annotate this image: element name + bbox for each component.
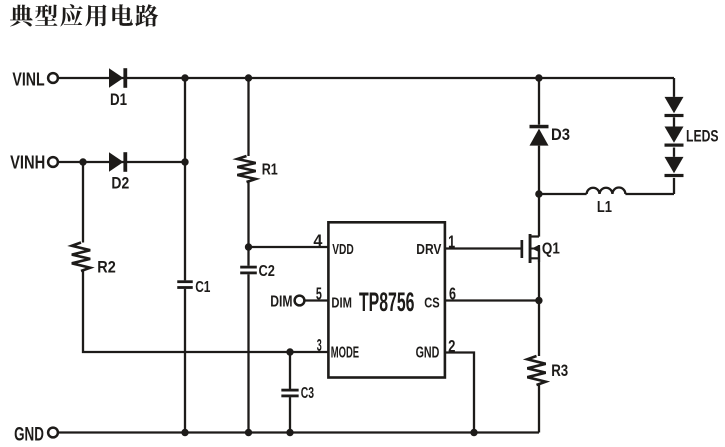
capacitor C3	[281, 389, 298, 398]
svg-text:TP8756: TP8756	[359, 287, 415, 317]
svg-text:C1: C1	[195, 279, 210, 296]
svg-text:D1: D1	[110, 91, 127, 109]
wire D3 cathode up	[538, 78, 540, 125]
svg-text:1: 1	[448, 232, 455, 252]
wire DIM pin	[305, 299, 328, 301]
svg-text:VINL: VINL	[12, 70, 44, 90]
junction CS node	[535, 297, 542, 304]
transistor Q1	[521, 234, 540, 263]
svg-text:Q1: Q1	[542, 241, 560, 258]
op-amp U1 TP8756 IC body	[328, 222, 445, 377]
svg-text:4: 4	[313, 230, 322, 250]
terminal DIM	[295, 296, 305, 306]
svg-text:MODE: MODE	[331, 345, 359, 362]
svg-text:R2: R2	[97, 259, 116, 277]
wire LED string top	[673, 78, 675, 97]
junction VDD/C2	[245, 243, 252, 250]
junction node A mid	[181, 158, 188, 165]
svg-text:D3: D3	[551, 126, 570, 144]
svg-text:5: 5	[316, 284, 322, 304]
svg-text:DIM: DIM	[331, 296, 352, 312]
junction node B top	[245, 74, 252, 81]
svg-text:CS: CS	[424, 296, 440, 312]
svg-text:LEDS: LEDS	[686, 127, 719, 146]
wire C1 to ground rail	[184, 289, 186, 433]
wire CS pin	[445, 299, 539, 301]
wire node B down to R1	[247, 78, 249, 156]
wire VINH rail	[59, 161, 186, 163]
svg-text:C3: C3	[301, 385, 315, 402]
svg-text:2: 2	[448, 336, 455, 356]
svg-text:R1: R1	[262, 162, 278, 179]
junction node A top	[181, 74, 188, 81]
terminal VINL	[48, 73, 58, 83]
svg-text:C2: C2	[259, 263, 275, 280]
wire VINL top rail	[59, 77, 675, 79]
junction ground GND pin	[470, 429, 477, 436]
svg-text:VDD: VDD	[332, 242, 354, 258]
svg-text:6: 6	[449, 284, 456, 304]
capacitor C2	[240, 266, 257, 275]
LED 1	[665, 97, 684, 117]
junction MODE/C3	[286, 348, 293, 355]
svg-text:GND: GND	[416, 345, 440, 362]
wire Q1 source down	[538, 249, 540, 301]
LED 2	[665, 127, 684, 147]
svg-text:DIM: DIM	[270, 293, 292, 310]
terminal VINH	[48, 157, 58, 167]
svg-text:R3: R3	[551, 362, 568, 380]
svg-text:DRV: DRV	[416, 242, 441, 258]
wire MODE node to C3	[289, 352, 291, 389]
svg-text:L1: L1	[597, 199, 612, 216]
wire LED string links	[673, 117, 675, 194]
junction SW node	[535, 190, 542, 197]
diode D3	[530, 125, 549, 146]
wire ground rail	[59, 431, 539, 433]
wire C2 to ground rail	[247, 274, 249, 432]
wire CS node to R3	[538, 301, 540, 357]
terminal GND	[48, 428, 58, 438]
capacitor C1	[177, 280, 193, 289]
svg-text:3: 3	[317, 335, 322, 355]
svg-text:VINH: VINH	[10, 152, 45, 173]
junction D3 top	[535, 74, 542, 81]
wire L1 to SW node	[539, 193, 587, 195]
diode D2	[109, 152, 127, 172]
title 典型应用电路	[10, 4, 158, 26]
wire C3 to ground rail	[289, 397, 291, 432]
resistor R3	[527, 356, 545, 385]
LED 3	[665, 157, 684, 177]
svg-text:D2: D2	[111, 175, 129, 193]
junction ground C1	[181, 429, 188, 436]
wire D3 anode to Q1 drain	[538, 146, 540, 237]
wire VINH to R2 top	[82, 162, 84, 243]
resistor R2	[72, 243, 90, 272]
wire R3 to ground rail	[538, 385, 540, 433]
wire node A down to C1	[184, 78, 186, 280]
svg-text:GND: GND	[14, 425, 44, 446]
wire GND pin	[445, 353, 474, 433]
wire DRV to gate	[445, 247, 521, 249]
wire VDD pin	[249, 246, 328, 248]
inductor L1	[587, 188, 626, 194]
wire R1 to C2	[247, 182, 249, 266]
diode D1	[109, 68, 127, 88]
junction ground C2	[245, 429, 252, 436]
junction VINH	[79, 158, 86, 165]
resistor R1	[237, 156, 255, 182]
wire R2 bottom to MODE	[83, 271, 328, 352]
wire LED bottom to L1	[625, 193, 674, 195]
junction ground C3	[286, 429, 293, 436]
